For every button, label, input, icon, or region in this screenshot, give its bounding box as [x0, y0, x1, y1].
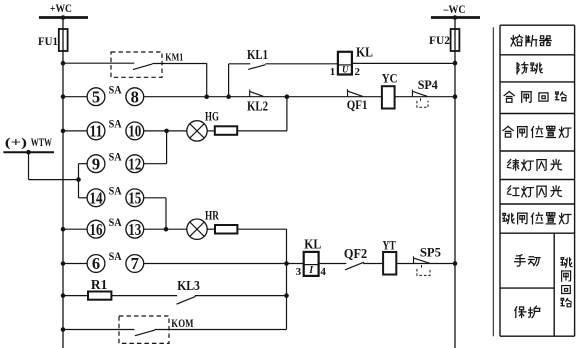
svg-text:KL: KL — [356, 45, 373, 60]
svg-text:KL1: KL1 — [247, 47, 268, 62]
svg-text:5: 5 — [92, 87, 100, 106]
svg-text:+WC: +WC — [50, 1, 72, 15]
svg-text:7: 7 — [131, 254, 139, 273]
svg-text:SA: SA — [109, 82, 122, 96]
svg-text:KL: KL — [304, 236, 321, 251]
svg-text:13: 13 — [128, 220, 141, 239]
svg-text:FU2: FU2 — [429, 33, 450, 47]
svg-text:FU1: FU1 — [38, 34, 58, 48]
svg-text:(+): (+) — [5, 135, 27, 150]
svg-text:15: 15 — [128, 189, 141, 208]
svg-text:SP5: SP5 — [420, 245, 442, 260]
svg-text:KM1: KM1 — [165, 52, 183, 63]
svg-text:–WC: –WC — [443, 2, 466, 16]
svg-text:YT: YT — [383, 237, 396, 252]
svg-text:SA: SA — [109, 149, 122, 163]
svg-text:R1: R1 — [91, 277, 108, 292]
svg-text:SA: SA — [109, 249, 122, 263]
svg-text:SA: SA — [109, 215, 122, 229]
svg-text:SA: SA — [109, 117, 122, 131]
svg-text:SA: SA — [109, 184, 122, 198]
svg-text:KL3: KL3 — [177, 278, 200, 293]
svg-text:4: 4 — [320, 266, 326, 278]
svg-text:8: 8 — [131, 87, 139, 106]
svg-text:3: 3 — [296, 266, 302, 278]
svg-text:6: 6 — [92, 254, 100, 273]
svg-text:2: 2 — [355, 66, 361, 78]
svg-text:SP4: SP4 — [418, 77, 439, 92]
svg-text:QF2: QF2 — [344, 246, 367, 261]
svg-text:YC: YC — [382, 71, 398, 86]
svg-text:WTW: WTW — [31, 137, 53, 149]
svg-text:9: 9 — [92, 154, 100, 173]
svg-text:KL2: KL2 — [247, 99, 268, 114]
svg-text:U: U — [342, 65, 349, 75]
svg-text:14: 14 — [90, 189, 103, 208]
svg-text:1: 1 — [330, 66, 336, 78]
svg-text:16: 16 — [90, 220, 103, 239]
svg-text:10: 10 — [128, 122, 141, 141]
svg-text:12: 12 — [128, 154, 141, 173]
svg-text:HG: HG — [205, 109, 219, 124]
svg-text:QF1: QF1 — [347, 97, 368, 112]
svg-text:11: 11 — [90, 122, 103, 141]
svg-text:KOM: KOM — [171, 318, 193, 330]
svg-text:HR: HR — [205, 208, 219, 223]
